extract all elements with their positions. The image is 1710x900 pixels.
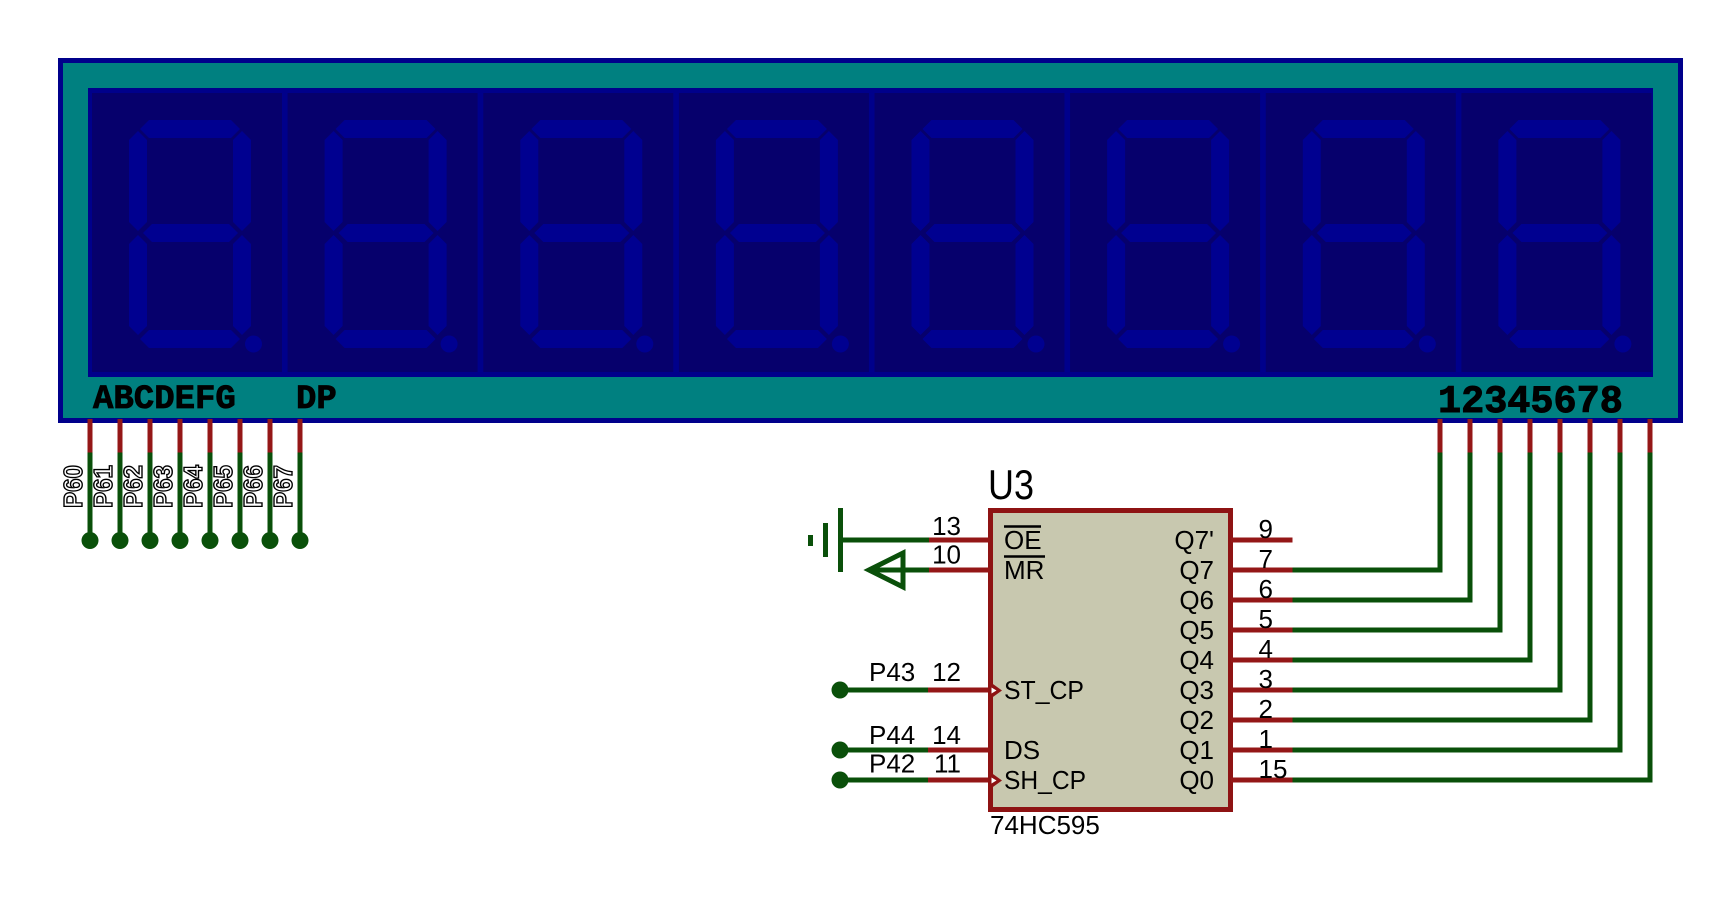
- svg-text:7: 7: [1259, 544, 1273, 574]
- pin 15 Q0 wire and net to display pin 8: [1231, 419, 1653, 780]
- svg-text:1: 1: [1259, 724, 1273, 754]
- svg-text:U3: U3: [988, 461, 1034, 508]
- svg-text:P67: P67: [268, 465, 298, 508]
- digit 8: [1461, 93, 1651, 372]
- svg-text:14: 14: [932, 720, 961, 750]
- svg-text:12345678: 12345678: [1438, 380, 1623, 424]
- svg-text:4: 4: [1259, 634, 1273, 664]
- svg-text:3: 3: [1259, 664, 1273, 694]
- pin G wire: [262, 419, 279, 549]
- svg-text:Q7': Q7': [1174, 525, 1214, 555]
- pin 14 DS wire: [928, 748, 990, 753]
- svg-text:P63: P63: [148, 465, 178, 508]
- 7-segment display module frame: [61, 61, 1681, 421]
- pin 6 Q6 wire and net to display pin 2: [1231, 419, 1473, 600]
- svg-text:Q4: Q4: [1179, 645, 1214, 675]
- svg-text:P43: P43: [869, 657, 915, 687]
- pin B wire: [112, 419, 129, 549]
- pin D wire: [172, 419, 189, 549]
- svg-text:ABCDEFG: ABCDEFG: [93, 381, 236, 419]
- svg-text:P44: P44: [869, 720, 915, 750]
- svg-text:74HC595: 74HC595: [990, 810, 1100, 840]
- svg-text:12: 12: [932, 657, 961, 687]
- pin 10 MR wire: [929, 568, 990, 573]
- svg-text:Q2: Q2: [1179, 705, 1214, 735]
- svg-text:P61: P61: [88, 465, 118, 508]
- terminal P44: [832, 742, 929, 759]
- IC U3 74HC595 body: [991, 511, 1231, 810]
- svg-text:MR: MR: [1004, 555, 1044, 585]
- pin 5 Q5 wire and net to display pin 3: [1231, 419, 1503, 630]
- svg-text:P65: P65: [208, 465, 238, 508]
- svg-text:P62: P62: [118, 465, 148, 508]
- digit 4: [679, 93, 869, 372]
- digit 5: [875, 93, 1065, 372]
- svg-text:OE: OE: [1004, 525, 1042, 555]
- digit 1: [92, 93, 282, 372]
- digit 6: [1070, 93, 1260, 372]
- svg-text:DP: DP: [296, 381, 337, 419]
- clock symbol ST_CP: [988, 681, 1002, 701]
- svg-text:SH_CP: SH_CP: [1004, 765, 1086, 795]
- svg-text:10: 10: [932, 540, 961, 570]
- pin 7 Q7 wire and net to display pin 1: [1231, 419, 1443, 570]
- pin E wire: [202, 419, 219, 549]
- svg-text:9: 9: [1259, 514, 1273, 544]
- pin 12 ST_CP wire: [928, 688, 990, 693]
- pin A wire: [82, 419, 99, 549]
- svg-text:Q5: Q5: [1179, 615, 1214, 645]
- pin 4 Q4 wire and net to display pin 4: [1231, 419, 1533, 660]
- svg-text:11: 11: [934, 749, 961, 779]
- svg-text:15: 15: [1259, 754, 1288, 784]
- pin DP wire: [292, 419, 309, 549]
- digit 3: [483, 93, 673, 372]
- terminal P42: [832, 772, 929, 789]
- pin 13 OE wire: [929, 538, 990, 543]
- svg-text:ST_CP: ST_CP: [1004, 675, 1084, 705]
- svg-text:Q1: Q1: [1179, 735, 1214, 765]
- pin 3 Q3 wire and net to display pin 5: [1231, 419, 1563, 690]
- digit 7: [1266, 93, 1456, 372]
- svg-text:P64: P64: [178, 465, 208, 508]
- pin C wire: [142, 419, 159, 549]
- svg-text:Q7: Q7: [1179, 555, 1214, 585]
- display glass panel: [88, 88, 1653, 377]
- pin F wire: [232, 419, 249, 549]
- pin 1 Q1 wire and net to display pin 7: [1231, 419, 1623, 750]
- svg-text:Q3: Q3: [1179, 675, 1214, 705]
- svg-text:P66: P66: [238, 465, 268, 508]
- pin 11 SH_CP wire: [928, 778, 990, 783]
- svg-text:P42: P42: [869, 749, 915, 779]
- svg-text:2: 2: [1259, 694, 1273, 724]
- svg-text:DS: DS: [1004, 735, 1040, 765]
- svg-text:5: 5: [1259, 604, 1273, 634]
- pin name MR with overline: [1004, 555, 1045, 585]
- svg-text:6: 6: [1259, 574, 1273, 604]
- terminal P43: [832, 682, 929, 699]
- ground symbol: [808, 508, 843, 572]
- pin 2 Q2 wire and net to display pin 6: [1231, 419, 1593, 720]
- svg-text:P60: P60: [58, 465, 88, 508]
- wire OE to ground: [843, 538, 929, 543]
- svg-text:Q0: Q0: [1179, 765, 1214, 795]
- pin 9 Q7' wire: [1231, 538, 1293, 543]
- svg-text:13: 13: [932, 511, 961, 541]
- pin name OE with overline: [1004, 525, 1042, 555]
- power arrow on MR: [869, 553, 929, 587]
- clock symbol SH_CP: [988, 771, 1002, 791]
- digit 2: [288, 93, 478, 372]
- svg-text:Q6: Q6: [1179, 585, 1214, 615]
